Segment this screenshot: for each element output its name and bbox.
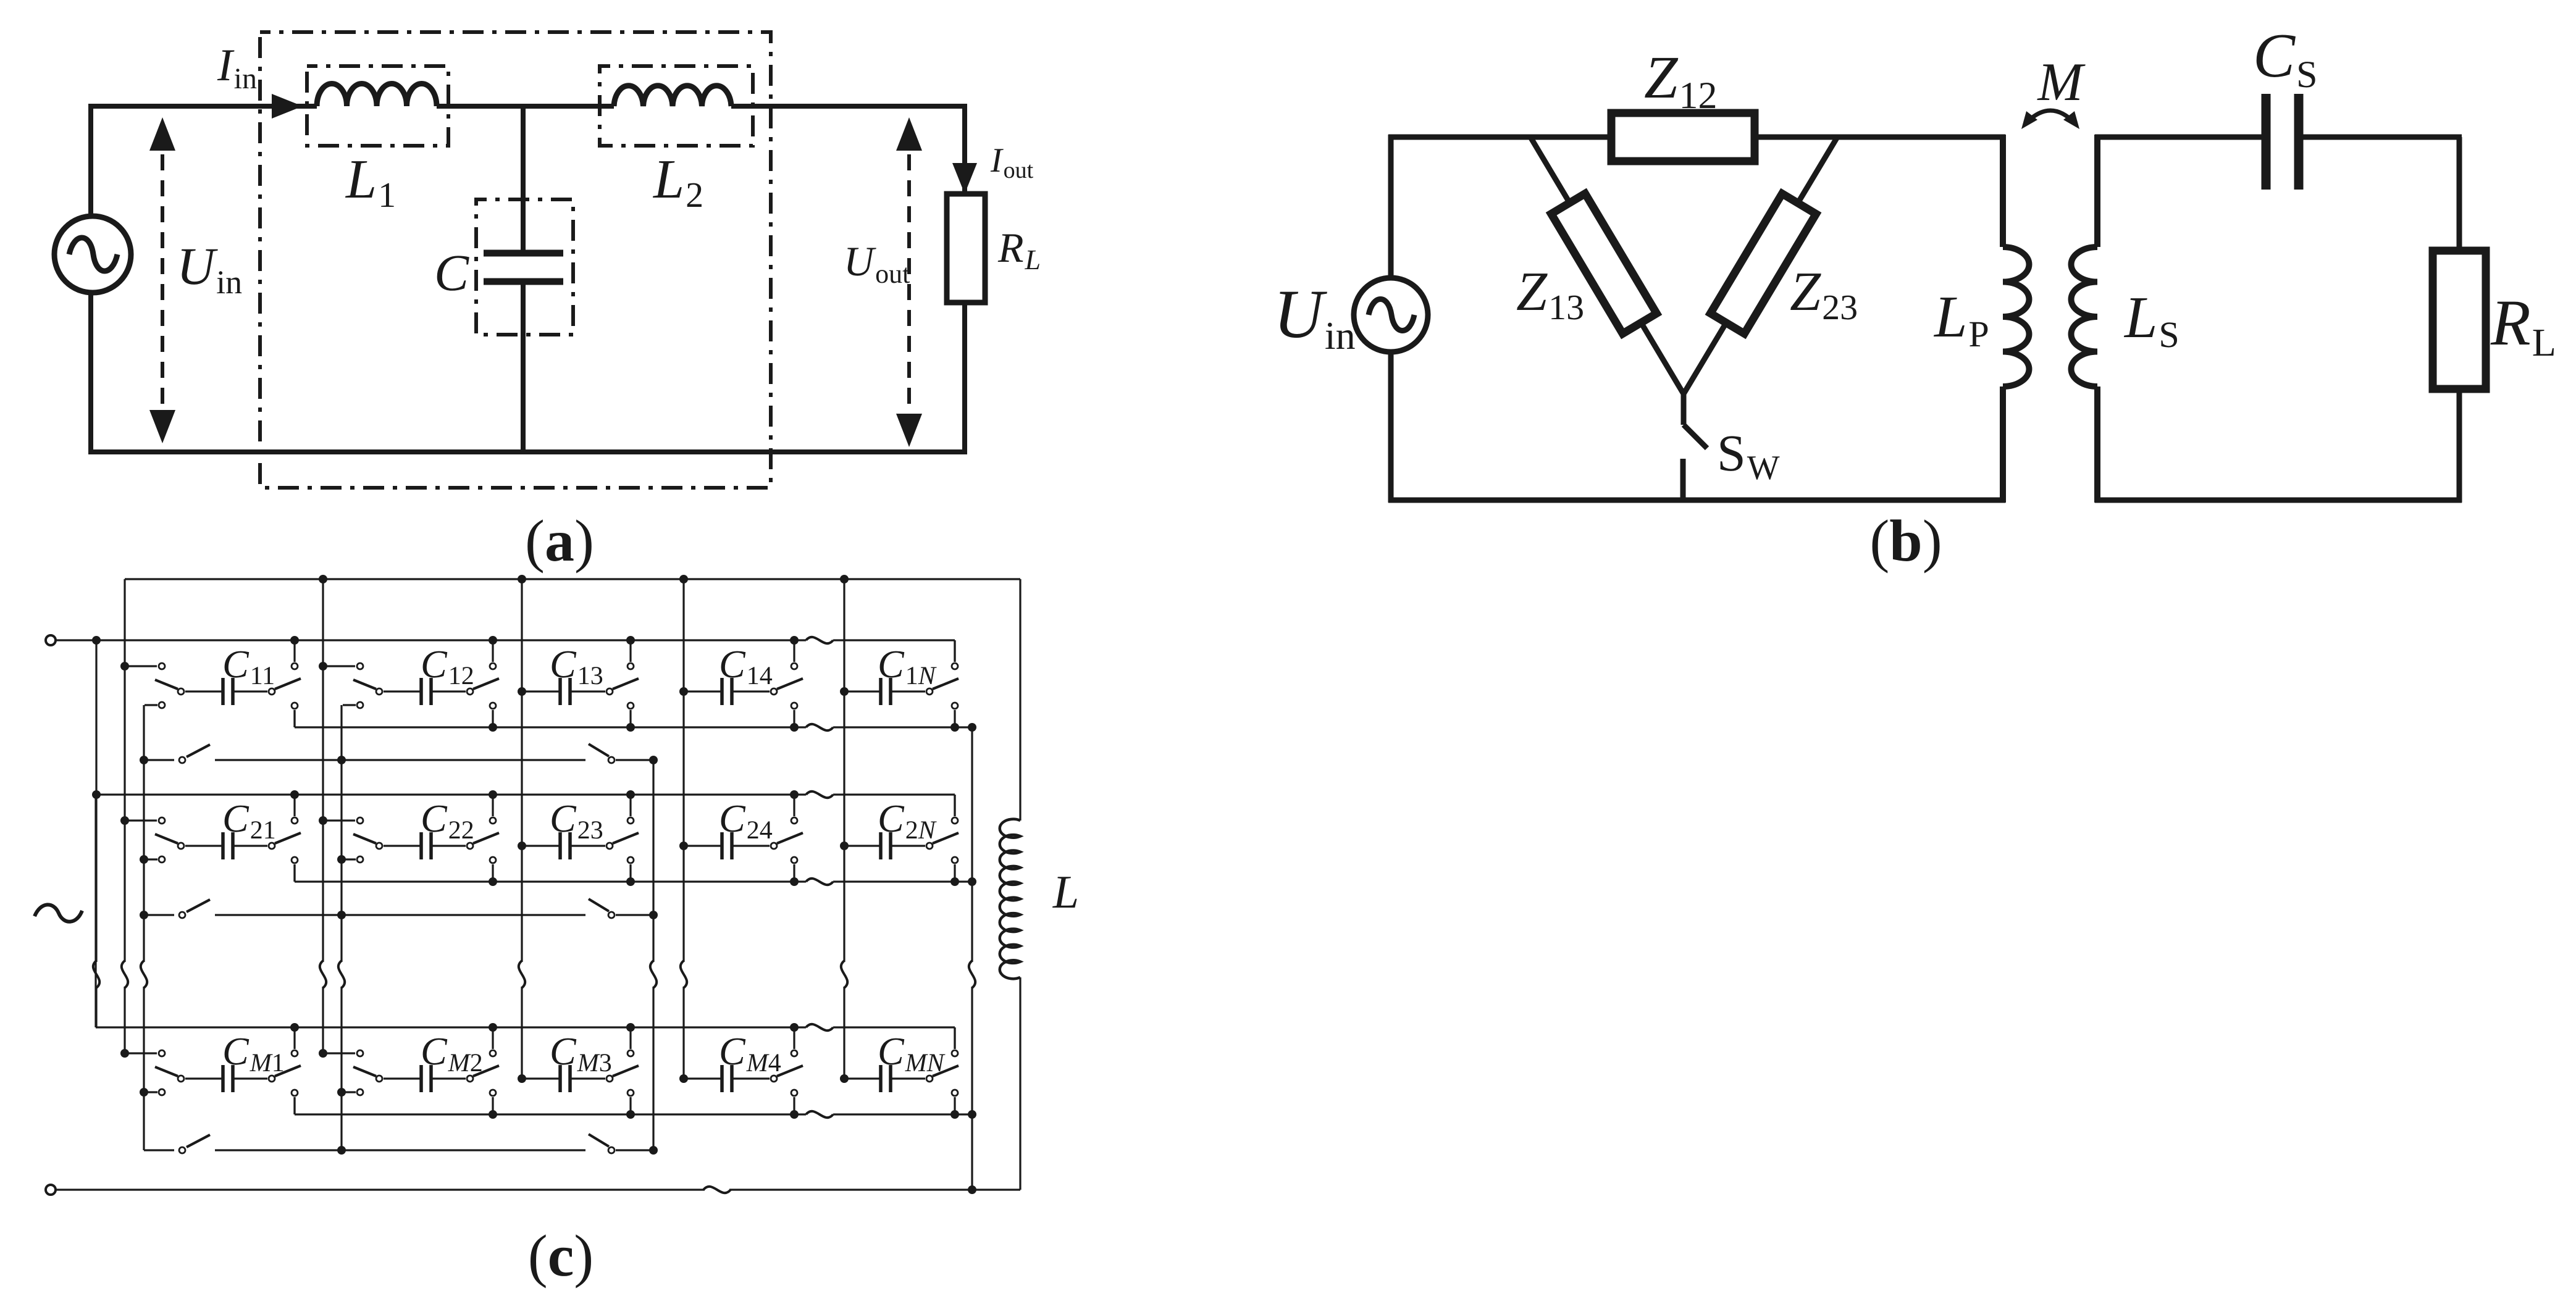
node select row M left pivot xyxy=(179,1147,185,1153)
wire CMN lower-right stub xyxy=(954,1097,955,1114)
switch C21 right blade xyxy=(275,833,301,843)
svg-text:M: M xyxy=(2036,52,2086,112)
node C2N lower-right contact xyxy=(952,857,958,863)
wire C11 right lead xyxy=(233,690,267,692)
wire select row 2 left xyxy=(144,914,174,916)
wire C23 left lead xyxy=(522,845,560,846)
junction C2N left xyxy=(840,842,849,850)
node select row M right pivot xyxy=(608,1147,615,1153)
capacitor C2N xyxy=(879,832,883,859)
svg-text:(b): (b) xyxy=(1869,508,1942,574)
junction top bus x523 xyxy=(319,575,327,583)
node C21 upper-right contact xyxy=(292,817,298,824)
AC source Uin (b) xyxy=(1354,278,1428,352)
wire C24 left lead xyxy=(684,845,722,846)
wire C1N upper-right stub xyxy=(954,640,955,662)
node C11 lower-right contact xyxy=(292,703,298,709)
wire CM1 lower-right stub xyxy=(293,1097,295,1114)
wire CM1 lower-left stub xyxy=(145,1091,157,1093)
capacitor CS xyxy=(2262,94,2271,190)
node C1N upper-right contact xyxy=(952,663,958,669)
wire C12 left lead xyxy=(384,690,421,692)
wire row M sub-bus left corner xyxy=(293,1097,295,1114)
impedance branch Z13 wire xyxy=(1530,137,1684,394)
node C21 upper-left contact xyxy=(159,817,165,824)
break select collector xyxy=(650,961,657,988)
switch C11 right blade xyxy=(275,679,301,689)
junction C21 upper-left xyxy=(120,816,129,825)
break column bus 3 xyxy=(519,961,525,988)
wire CM4 lower-right stub xyxy=(793,1097,795,1114)
switch C2N right blade xyxy=(933,833,959,843)
node C23 upper-right contact xyxy=(627,817,634,824)
switch select row 1 left blade xyxy=(187,745,210,757)
wire (b) secondary top left xyxy=(2095,135,2262,140)
capacitor C12 xyxy=(419,678,423,705)
inductor LP wire top xyxy=(2000,135,2006,247)
wire C21 right lead xyxy=(233,845,267,846)
node CM1 lower-right contact xyxy=(292,1090,298,1096)
wire C2N left lead xyxy=(844,845,881,846)
wire (b) left bottom xyxy=(1388,351,1394,503)
node C22 right pivot xyxy=(467,843,473,849)
junction descender col1 row2 xyxy=(140,855,148,864)
junction top bus x1367 xyxy=(840,575,849,583)
junction C11 upper-right xyxy=(290,636,299,645)
break row 2 bus xyxy=(806,792,833,798)
wire C13 left lead xyxy=(522,690,560,692)
wire row 2 sub-bus xyxy=(295,880,806,882)
junction CM2 upper-right xyxy=(489,1023,497,1032)
junction C13 lower-right xyxy=(626,723,635,732)
wire select row 1 left xyxy=(144,759,174,761)
wire row 1 bus xyxy=(125,639,806,641)
wire CM1 right lead xyxy=(233,1077,267,1079)
wire row M bus xyxy=(96,1026,806,1028)
wire row 1 sub-bus xyxy=(295,726,806,728)
wire C11 upper-right stub xyxy=(293,640,295,662)
wire C22 right lead xyxy=(431,845,466,846)
arrow Uin dashed xyxy=(161,128,164,432)
switch CM3 right blade xyxy=(613,1066,639,1076)
switch CM4 right blade xyxy=(777,1066,803,1076)
node CMN upper-right contact xyxy=(952,1050,958,1056)
break column bus 1 xyxy=(122,961,128,988)
break row 1 bus xyxy=(806,637,833,643)
dash-dot box L2 xyxy=(600,66,753,146)
capacitor CM3 xyxy=(558,1065,562,1092)
resistor RL (a) xyxy=(947,194,985,303)
wire column bus 1 xyxy=(124,579,125,962)
inductor LS wire bottom xyxy=(2094,386,2100,503)
wire C12 lower-left stub xyxy=(343,704,356,706)
junction descender col2 rowM xyxy=(337,1088,346,1097)
inductor L (c) xyxy=(1000,819,1020,979)
junction C11 upper-left xyxy=(120,662,129,671)
terminal input top xyxy=(46,635,56,645)
svg-text:(c): (c) xyxy=(528,1222,594,1289)
switch C12 left blade xyxy=(353,680,376,689)
node CMN lower-right contact xyxy=(952,1090,958,1096)
junction top bus x1107 xyxy=(679,575,688,583)
junction select row 1 right end xyxy=(649,756,658,764)
wire CM2 right lead xyxy=(431,1077,466,1079)
node CMN right pivot xyxy=(926,1076,933,1082)
junction descender col2 row2 xyxy=(337,855,346,864)
inductor LS wire top xyxy=(2094,135,2100,247)
node C12 upper-right contact xyxy=(490,663,496,669)
wire C1N lower-right stub xyxy=(954,710,955,727)
break row 1 sub-bus xyxy=(806,724,833,730)
switch CM1 right blade xyxy=(275,1066,301,1076)
node C11 upper-right contact xyxy=(292,663,298,669)
wire column bus 3 xyxy=(521,579,522,962)
switch select row M left blade xyxy=(187,1135,210,1147)
wire CM1 upper-right stub xyxy=(293,1027,295,1049)
wire CM1 left lead xyxy=(185,1077,223,1079)
wire select row 1 middle xyxy=(215,759,585,761)
node C1N right pivot xyxy=(926,688,933,695)
switch select row 2 left blade xyxy=(187,900,210,912)
wire L branch top xyxy=(1019,579,1021,821)
wire C11 lower-right stub xyxy=(293,710,295,727)
junction C23 left xyxy=(518,842,526,850)
wire C12 upper-left stub xyxy=(323,665,355,667)
wire C2N lower-right stub xyxy=(954,864,955,882)
junction select row 1 col2 descender xyxy=(337,756,346,764)
wire C23 lower-right stub xyxy=(629,864,631,882)
wire (b) secondary right top xyxy=(2457,137,2462,251)
wire C23 right lead xyxy=(570,845,605,846)
wire C2N right lead xyxy=(891,845,925,846)
node CM2 lower-right contact xyxy=(490,1090,496,1096)
wire CM2 upper-left stub xyxy=(323,1052,355,1054)
wire C13 lower-right stub xyxy=(629,710,631,727)
wire CM4 left lead xyxy=(684,1077,722,1079)
switch select row 1 right blade xyxy=(589,744,609,756)
wire row M right corner xyxy=(954,1027,955,1049)
wire select row M left xyxy=(144,1149,174,1151)
wire (b) top right xyxy=(1752,135,2005,140)
node CM2 right pivot xyxy=(467,1076,473,1082)
resistor Z13 xyxy=(1551,194,1657,334)
node C12 upper-left contact xyxy=(357,663,363,669)
node select row 2 right pivot xyxy=(608,912,615,918)
junction C22 upper-left xyxy=(319,816,327,825)
junction row 1 sub-bus collector xyxy=(968,723,976,732)
wire C12 upper-right stub xyxy=(492,640,493,662)
junction C23 lower-right xyxy=(626,877,635,886)
switch C11 left blade xyxy=(155,680,178,689)
wire select row 2 middle xyxy=(215,914,585,916)
wire row 1 right corner xyxy=(954,640,955,662)
wire column bus 4 xyxy=(682,579,684,962)
dash-dot box outer (a) xyxy=(260,32,771,488)
svg-text:(a): (a) xyxy=(525,508,594,574)
node C1N lower-right contact xyxy=(952,703,958,709)
capacitor C24 xyxy=(720,832,724,859)
node CM1 lower-left contact xyxy=(159,1089,165,1095)
wire (a) top middle xyxy=(437,104,614,109)
junction C13 upper-right xyxy=(626,636,635,645)
node C22 lower-right contact xyxy=(490,857,496,863)
wire (a) top xyxy=(88,104,317,109)
inductor L1 xyxy=(317,84,437,106)
junction C12 upper-left xyxy=(319,662,327,671)
break input distribution bus xyxy=(93,961,99,988)
wire row M input corner xyxy=(94,795,96,1027)
svg-text:L: L xyxy=(1052,866,1079,918)
wire C22 upper-right stub xyxy=(492,795,493,816)
svg-text:C: C xyxy=(434,244,469,302)
junction row 2 input xyxy=(92,790,101,799)
arrow Uout dashed xyxy=(907,128,911,436)
switch C14 right blade xyxy=(777,679,803,689)
switch C13 right blade xyxy=(613,679,639,689)
capacitor CM4 xyxy=(720,1065,724,1092)
junction C1N left xyxy=(840,687,849,696)
arrow Iin xyxy=(272,94,303,119)
junction C22 lower-right xyxy=(489,877,497,886)
node C22 upper-left contact xyxy=(357,817,363,824)
junction C1N lower-right xyxy=(950,723,959,732)
node C12 lower-right contact xyxy=(490,703,496,709)
wire capacitor branch top xyxy=(521,106,526,252)
junction C24 upper-right xyxy=(790,790,799,799)
junction C12 upper-right xyxy=(489,636,497,645)
wire row 2 right corner xyxy=(954,795,955,816)
node C14 upper-right contact xyxy=(791,663,797,669)
wire (a) top right xyxy=(731,104,967,109)
junction bottom collector xyxy=(968,1185,976,1194)
AC source Uin (a) xyxy=(54,216,131,293)
capacitor C23 xyxy=(558,832,562,859)
wire (b) secondary bottom xyxy=(2095,498,2462,503)
capacitor C14 xyxy=(720,678,724,705)
switch C24 right blade xyxy=(777,833,803,843)
capacitor C11 xyxy=(221,678,225,705)
junction CMN lower-right xyxy=(950,1110,959,1119)
wire C14 left lead xyxy=(684,690,722,692)
junction C14 lower-right xyxy=(790,723,799,732)
capacitor C (a) xyxy=(484,250,563,257)
break column bus 5 xyxy=(841,961,847,988)
wire C1N right lead xyxy=(891,690,925,692)
switch C12 right blade xyxy=(473,679,499,689)
node C24 upper-right contact xyxy=(791,817,797,824)
resistor RL (b) xyxy=(2433,251,2486,389)
wire row 1 sub-bus left corner xyxy=(293,710,295,727)
node CM3 upper-right contact xyxy=(627,1050,634,1056)
node CM2 lower-left contact xyxy=(357,1089,363,1095)
node C22 upper-right contact xyxy=(490,817,496,824)
wire (c) bottom right xyxy=(729,1189,1020,1190)
wire C14 lower-right stub xyxy=(793,710,795,727)
wire C14 right lead xyxy=(732,690,770,692)
wire C24 lower-right stub xyxy=(793,864,795,882)
junction CM4 upper-right xyxy=(790,1023,799,1032)
wire C21 upper-left stub xyxy=(125,819,157,821)
resistor Z23 xyxy=(1711,194,1816,334)
wire select row 2 right xyxy=(616,914,653,916)
capacitor C13 xyxy=(558,678,562,705)
break row M bus xyxy=(806,1024,833,1030)
junction row 2 sub-bus collector xyxy=(968,877,976,886)
node CM3 right pivot xyxy=(606,1076,613,1082)
capacitor C1N xyxy=(879,678,883,705)
switch C21 left blade xyxy=(155,834,178,843)
node CM4 lower-right contact xyxy=(791,1090,797,1096)
wire CM3 upper-right stub xyxy=(629,1027,631,1049)
switch CM1 left blade xyxy=(155,1067,178,1076)
wire (a) left top xyxy=(88,106,93,216)
junction C14 upper-right xyxy=(790,636,799,645)
wire select row M right xyxy=(616,1149,653,1151)
junction C12 lower-right xyxy=(489,723,497,732)
junction select row 2 left xyxy=(140,911,148,919)
junction C2N lower-right xyxy=(950,877,959,886)
junction CMN left xyxy=(840,1074,849,1083)
node C24 right pivot xyxy=(771,843,777,849)
wire descender column 1 xyxy=(143,705,145,962)
wire column bus 2 xyxy=(322,579,324,962)
node C11 left pivot xyxy=(178,688,184,695)
node CM2 left pivot xyxy=(376,1076,382,1082)
switch C1N right blade xyxy=(933,679,959,689)
junction CM3 left xyxy=(518,1074,526,1083)
capacitor CM1 xyxy=(221,1065,225,1092)
node CM1 upper-right contact xyxy=(292,1050,298,1056)
junction select row 2 col2 descender xyxy=(337,911,346,919)
junction C24 lower-right xyxy=(790,877,799,886)
wire C12 right lead xyxy=(431,690,466,692)
node CM4 right pivot xyxy=(771,1076,777,1082)
wire C11 lower-left stub xyxy=(145,704,157,706)
resistor Z12 xyxy=(1611,113,1755,161)
capacitor CM2 xyxy=(419,1065,423,1092)
wire (b) left top xyxy=(1388,135,1394,279)
wire CM2 upper-right stub xyxy=(492,1027,493,1049)
switch select row 2 right blade xyxy=(589,899,609,911)
wire CM1 upper-left stub xyxy=(125,1052,157,1054)
junction C21 upper-right xyxy=(290,790,299,799)
node C13 upper-right contact xyxy=(627,663,634,669)
node C13 right pivot xyxy=(606,688,613,695)
switch CM2 left blade xyxy=(353,1067,376,1076)
terminal input bottom xyxy=(46,1185,56,1195)
wire C12 lower-right stub xyxy=(492,710,493,727)
node CM2 upper-right contact xyxy=(490,1050,496,1056)
capacitor C22 xyxy=(419,832,423,859)
node C14 lower-right contact xyxy=(791,703,797,709)
break output collector xyxy=(969,961,975,988)
wire row 2 bus xyxy=(96,793,806,795)
node C21 lower-right contact xyxy=(292,857,298,863)
switch C22 right blade xyxy=(473,833,499,843)
junction C22 upper-right xyxy=(489,790,497,799)
wire C24 upper-right stub xyxy=(793,795,795,816)
junction C13 left xyxy=(518,687,526,696)
junction C23 upper-right xyxy=(626,790,635,799)
wire CMN right lead xyxy=(891,1077,925,1079)
node C24 lower-right contact xyxy=(791,857,797,863)
inductor LP xyxy=(2003,247,2029,386)
node C2N upper-right contact xyxy=(952,817,958,824)
wire select row M middle xyxy=(215,1149,585,1151)
node C21 lower-left contact xyxy=(159,856,165,863)
wire (a) left bottom xyxy=(88,293,93,454)
wire select collector xyxy=(652,760,654,962)
break row M sub-bus xyxy=(806,1111,833,1118)
wire column bus 5 xyxy=(843,579,845,962)
source tilde (c) xyxy=(35,905,82,921)
wire C14 upper-right stub xyxy=(793,640,795,662)
wire CM4 upper-right stub xyxy=(793,1027,795,1049)
break row 2 sub-bus xyxy=(806,879,833,885)
wire (b) bottom primary xyxy=(1388,498,2005,503)
wire C22 lower-left stub xyxy=(343,858,356,860)
node C21 left pivot xyxy=(178,843,184,849)
break descender column 2 xyxy=(338,961,345,988)
wire C13 upper-right stub xyxy=(629,640,631,662)
junction CM1 upper-left xyxy=(120,1049,129,1058)
wire C21 left lead xyxy=(185,845,223,846)
junction select row M right end xyxy=(649,1146,658,1155)
wire (c) bottom left xyxy=(56,1189,705,1190)
node C2N right pivot xyxy=(926,843,933,849)
wire C2N upper-right stub xyxy=(954,795,955,816)
dash-dot box L1 xyxy=(307,66,448,146)
wire C11 upper-left stub xyxy=(125,665,157,667)
switch C22 left blade xyxy=(353,834,376,843)
junction CM3 upper-right xyxy=(626,1023,635,1032)
wire (b) secondary top right xyxy=(2302,135,2462,140)
wire C24 right lead xyxy=(732,845,770,846)
wire (b) top left xyxy=(1388,135,1614,140)
switch C23 right blade xyxy=(613,833,639,843)
junction CM2 upper-left xyxy=(319,1049,327,1058)
node C14 right pivot xyxy=(771,688,777,695)
wire C21 lower-right stub xyxy=(293,864,295,882)
wire CM3 left lead xyxy=(522,1077,560,1079)
capacitor C21 xyxy=(221,832,225,859)
switch CMN right blade xyxy=(933,1066,959,1076)
wire C11 left lead xyxy=(185,690,223,692)
node C21 right pivot xyxy=(269,843,275,849)
wire descender column 2 xyxy=(340,705,342,962)
junction row1 input bus xyxy=(92,636,101,645)
wire row 1 input xyxy=(56,639,125,641)
wire row 2 sub-bus left corner xyxy=(293,864,295,882)
wire C21 upper-right stub xyxy=(293,795,295,816)
wire input distribution bus xyxy=(95,640,97,962)
inductor L2 xyxy=(614,86,731,106)
wire CM2 lower-left stub xyxy=(343,1091,356,1093)
wire (b) secondary right bottom xyxy=(2457,389,2462,503)
break column bus 4 xyxy=(681,961,687,988)
node C11 right pivot xyxy=(269,688,275,695)
junction descender col1 rowM xyxy=(140,1088,148,1097)
node select row 1 right pivot xyxy=(608,757,615,763)
junction select row M col2 descender xyxy=(337,1146,346,1155)
node C12 right pivot xyxy=(467,688,473,695)
switch SW wire lower xyxy=(1680,459,1686,500)
node C13 lower-right contact xyxy=(627,703,634,709)
inductor LP wire bottom xyxy=(2000,386,2006,503)
junction CM2 lower-right xyxy=(489,1110,497,1119)
wire C22 left lead xyxy=(384,845,421,846)
wire CM4 right lead xyxy=(732,1077,770,1079)
